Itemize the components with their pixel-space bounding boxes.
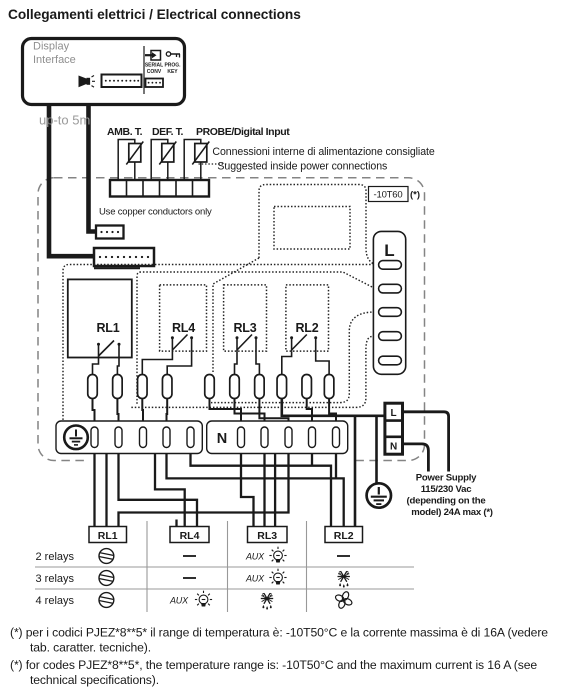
dotted wire L2 [137, 272, 375, 404]
svg-text:115/230 Vac: 115/230 Vac [421, 484, 473, 495]
wire RL1 contact to terminals [93, 358, 99, 375]
bus branch to earth [375, 416, 378, 483]
defrost RL2 r2 [338, 571, 350, 587]
svg-text:AUX: AUX [245, 574, 265, 584]
wire power L [404, 412, 449, 472]
L terminal 1 [379, 261, 402, 270]
RL2 label box [325, 527, 363, 543]
wire strip to RL3 c [274, 454, 276, 527]
table column separator 1 [146, 521, 148, 612]
compressor icon r1 [99, 549, 114, 564]
wire strip to RL3 b [263, 454, 265, 527]
wire strip to RL1 c [119, 454, 289, 527]
svg-text:RL1: RL1 [98, 530, 118, 542]
table column separator 3 [306, 521, 308, 612]
RL1 label box [89, 527, 127, 543]
svg-text:N: N [390, 442, 397, 453]
svg-text:CONV: CONV [147, 69, 162, 75]
relay output terminals RL1 [88, 375, 122, 399]
strip earth symbol [64, 426, 88, 450]
wire RL3 contact to terminals [235, 351, 238, 374]
power supply label [407, 473, 493, 519]
table row line 2 [35, 588, 414, 590]
svg-text:Suggested inside power connec: Suggested inside power connections [217, 160, 387, 172]
wire strip to RL1 b [105, 454, 107, 527]
relay output terminals RL2 [277, 375, 334, 399]
dash RL4 r1 [183, 555, 196, 557]
terminal strip block 1 [56, 421, 202, 454]
wire strip to RL4 left [155, 454, 185, 527]
wire strip to RL2 b [167, 454, 344, 527]
wire RL4 contact to terminals [142, 351, 172, 374]
svg-text:Power Supply: Power Supply [416, 473, 477, 484]
svg-text:RL3: RL3 [233, 321, 256, 335]
L terminal 3 [379, 308, 402, 317]
stub RL4 left tooth [175, 520, 177, 527]
relay RL4 contact [171, 335, 193, 352]
svg-text:KEY: KEY [167, 69, 178, 75]
RL4 label box [170, 527, 209, 543]
dotted wire to RL3 terminal [213, 258, 259, 373]
buzzer icon [79, 76, 96, 88]
bus wire to power L [282, 399, 384, 416]
svg-text:AUX: AUX [169, 596, 189, 606]
relay RL3 contact [236, 335, 258, 352]
svg-text:tab. caratter. tecniche).: tab. caratter. tecniche). [30, 641, 151, 655]
bus branch to RL2 [354, 416, 357, 527]
strip terminals 6-10 [238, 427, 340, 448]
svg-text:L: L [384, 241, 394, 260]
display 9-pin connector [102, 75, 142, 88]
jog wire terminal 9 [329, 399, 336, 422]
relay RL1 box [68, 279, 132, 357]
svg-text:3 relays: 3 relays [36, 573, 75, 585]
compressor icon r2 [99, 571, 114, 586]
serial conv / prog key labels [145, 63, 181, 76]
svg-text:RL3: RL3 [257, 530, 277, 542]
L terminal 4 [379, 332, 402, 341]
L terminal 2 [379, 284, 402, 293]
dotted wire L3 [211, 312, 375, 403]
dash RL2 r1 [337, 555, 350, 557]
dotted wire L4 [131, 336, 375, 407]
jog wire terminal 3 [141, 399, 144, 422]
relay output terminals RL3 [205, 375, 264, 399]
-10T60 box [369, 187, 409, 202]
svg-text:(*): (*) [410, 190, 420, 201]
svg-text:PROG.: PROG. [164, 63, 181, 69]
fan RL2 r3 [334, 591, 352, 609]
svg-text:L: L [391, 408, 397, 419]
wire power N [404, 444, 429, 472]
svg-text:(*) per i codici PJEZ*8**5* il: (*) per i codici PJEZ*8**5* il range di … [10, 626, 548, 640]
jog wire terminal 4 [166, 399, 169, 422]
dotted bus top box [259, 185, 375, 265]
svg-text:SERIAL: SERIAL [145, 63, 163, 69]
probe DEF.T [151, 140, 176, 181]
svg-text:RL1: RL1 [96, 321, 119, 335]
external 4-pin connector [96, 226, 124, 239]
relay output terminals RL4 [138, 375, 172, 399]
jog wire terminal 7 [259, 399, 288, 422]
svg-text:RL4: RL4 [172, 321, 195, 335]
jog wire terminal 1 [93, 399, 95, 422]
display interface box [23, 39, 185, 105]
external 9-pin connector [94, 248, 154, 268]
svg-text:RL2: RL2 [334, 530, 354, 542]
relay RL3 box [224, 285, 267, 351]
jog wire terminal 8 [307, 399, 312, 422]
probe terminal block [110, 180, 209, 197]
probe AMB.T [118, 140, 143, 181]
terminal strip block 2 [207, 421, 348, 454]
dash RL4 r2 [183, 577, 196, 579]
relay RL2 contact [290, 335, 317, 352]
table row line 1 [35, 566, 414, 568]
svg-text:Interface: Interface [33, 54, 76, 66]
prog key icon [166, 52, 180, 58]
wire strip to RL2 a [191, 454, 332, 527]
unit dashed outline [38, 178, 425, 461]
svg-text:(depending on the: (depending on the [407, 496, 486, 507]
table column separator 2 [227, 521, 229, 612]
RL3 label box [248, 527, 288, 543]
wire strip to RL3 a [241, 454, 254, 527]
dotted wire L1 [63, 265, 374, 421]
svg-text:technical specifications).: technical specifications). [30, 673, 159, 687]
jog wire terminal 2 [117, 399, 118, 422]
relay RL2 box [286, 285, 329, 351]
inner dotted rect [274, 207, 350, 250]
wire strip to RL1 a [93, 454, 95, 527]
svg-text:2 relays: 2 relays [36, 551, 75, 563]
svg-text:RL2: RL2 [295, 321, 318, 335]
svg-text:PROBE/Digital Input: PROBE/Digital Input [196, 126, 290, 138]
divider line [143, 46, 145, 94]
L terminal 5 [379, 356, 402, 365]
defrost RL3 r3 [261, 593, 273, 609]
stub terminal 10 [335, 454, 337, 479]
compressor icon r3 [99, 593, 114, 608]
relay RL4 box [160, 285, 207, 351]
serial conv icon [145, 51, 161, 61]
stub terminal 9 [311, 454, 313, 466]
patch over dashed bottom [86, 454, 352, 467]
svg-text:AMB. T.: AMB. T. [107, 126, 143, 138]
svg-text:model) 24A max (*): model) 24A max (*) [411, 507, 493, 518]
svg-text:RL4: RL4 [180, 530, 200, 542]
power supply terminal block [385, 403, 403, 454]
earth symbol [367, 483, 391, 507]
svg-text:Connessioni interne di aliment: Connessioni interne di alimentazione con… [212, 146, 434, 158]
svg-text:AUX: AUX [245, 552, 265, 562]
svg-text:Collegamenti elettrici / Elect: Collegamenti elettrici / Electrical conn… [8, 7, 301, 22]
display cable 2 [89, 105, 97, 232]
jog wire terminal 5 [210, 399, 242, 422]
display cable 1 [49, 105, 94, 257]
probe PROBE/Digital Input [184, 140, 209, 181]
svg-text:up-to 5m: up-to 5m [39, 113, 90, 128]
strip terminals 1-5 [91, 427, 194, 448]
svg-text:4 relays: 4 relays [36, 595, 75, 607]
svg-text:DEF. T.: DEF. T. [152, 126, 184, 138]
svg-text:Display: Display [33, 41, 70, 53]
wire strip to RL4 right [119, 454, 198, 527]
jog wire terminal 6 [235, 399, 265, 422]
display 4-pin connector [146, 79, 164, 88]
svg-text:Use copper conductors only: Use copper conductors only [99, 207, 212, 218]
svg-text:-10T60: -10T60 [374, 190, 403, 201]
wire RL2 contact to terminals [282, 351, 292, 374]
L terminal block [373, 231, 405, 374]
svg-text:(*) for codes PJEZ*8**5*, the: (*) for codes PJEZ*8**5*, the temperatur… [10, 658, 537, 672]
svg-text:N: N [217, 431, 227, 447]
relay RL1 contact [97, 341, 121, 358]
